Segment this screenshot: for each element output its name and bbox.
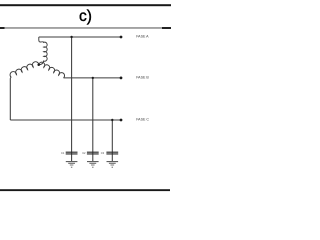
svg-text:c): c) bbox=[79, 8, 92, 25]
svg-text:C1: C1 bbox=[61, 151, 65, 155]
svg-text:C3: C3 bbox=[101, 151, 105, 155]
svg-text:FASE B: FASE B bbox=[136, 76, 149, 80]
svg-text:C2: C2 bbox=[82, 151, 86, 155]
svg-text:FASE C: FASE C bbox=[136, 118, 149, 122]
svg-text:FASE A: FASE A bbox=[136, 35, 149, 39]
